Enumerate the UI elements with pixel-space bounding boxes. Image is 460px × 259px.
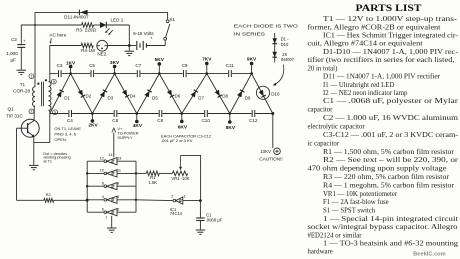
label TIP 31C (6, 114, 23, 119)
parts list line: IC1 - Hex Schmitt Trigger (323, 33, 459, 40)
resistor R1 1.5K (146, 171, 159, 176)
svg-text:1 — TO-3 heatsink and #6-32 mo: 1 — TO-3 heatsink and #6-32 mounting (323, 241, 459, 248)
wire diagonal for D3 (92, 74, 114, 114)
svg-text:74C14: 74C14 (170, 211, 183, 216)
pin 11 label (117, 168, 121, 173)
ground at Q1 emitter (29, 165, 39, 169)
svg-text:6KV: 6KV (178, 124, 188, 130)
VR1 wiper arrow (179, 155, 182, 170)
label 10KV (260, 149, 271, 154)
wire RC node to C1 (199, 201, 201, 218)
svg-text:.0068 µF: .0068 µF (206, 217, 223, 222)
wire battery to S1 (146, 40, 165, 46)
svg-text:R2: R2 (46, 193, 51, 197)
diode D9 (237, 90, 244, 98)
svg-text:5: 5 (117, 206, 119, 211)
wire VR1 wiper loop to right end (181, 155, 201, 173)
svg-text:11: 11 (117, 168, 121, 173)
pin 1 label (184, 193, 186, 198)
label 6-15 Volts (133, 31, 154, 36)
switch S1 SPST (164, 12, 170, 40)
parts list line: #ED2124 or similar (308, 232, 363, 239)
label S1 (169, 17, 175, 22)
svg-text:9KV: 9KV (247, 56, 257, 62)
diode D3 (100, 90, 107, 98)
phasing dot secondary (45, 79, 47, 81)
svg-text:C6: C6 (112, 118, 118, 123)
junction dot common ground node (128, 44, 131, 47)
label CAUTION!! (259, 156, 282, 161)
capacitor C10 .001uF (205, 110, 208, 117)
wire diagonal for D5 (137, 74, 160, 114)
svg-text:AC here: AC here (49, 33, 66, 38)
diode D6 (167, 90, 174, 98)
svg-text:D1-D10 — 1N4007 1-A, 1,000 PIV: D1-D10 — 1N4007 1-A, 1,000 PIV rec- (323, 49, 459, 56)
svg-text:PARTS LIST: PARTS LIST (356, 3, 422, 13)
svg-text:ON T1, LEAVE: ON T1, LEAVE (54, 126, 81, 131)
label IC1 74C14 (170, 207, 183, 216)
parts list line: R1 - 1,500 ohm, 5% carbon (323, 149, 455, 156)
pin 2 label (171, 193, 173, 198)
svg-text:D5: D5 (152, 95, 158, 100)
wire VR1 right end down to oscillator input (200, 173, 202, 200)
label C5 (89, 63, 95, 68)
label C9 (182, 63, 188, 68)
label 1,000 uF (6, 51, 18, 62)
label D1 (64, 95, 70, 100)
wire secondary top to AC tap (49, 46, 50, 82)
svg-text:R2 — See text – will be 220, 3: R2 — See text – will be 220, 390, or (323, 157, 459, 164)
label AC here with arrow (49, 33, 66, 44)
svg-text:.001 µF 2 or 3 KV: .001 µF 2 or 3 KV (161, 138, 193, 143)
parts list line: 470 ohm depending upon sup (308, 166, 447, 173)
inset diode upper (272, 38, 277, 43)
transistor Q1 TIP31C (17, 119, 40, 137)
parts list line: ic capacitor (308, 140, 340, 147)
svg-text:D1: D1 (64, 95, 70, 100)
parts list line: hardware (308, 248, 333, 255)
node 5KV terminal (155, 57, 165, 75)
LED I1 symbol (100, 22, 113, 35)
svg-text:1,000: 1,000 (6, 51, 18, 56)
inverter IC1 gate 5-6 (87, 209, 136, 216)
node 9KV terminal (247, 56, 257, 74)
node 2KV terminal (88, 112, 98, 128)
svg-text:D11-IN4007: D11-IN4007 (64, 14, 89, 19)
svg-text:6: 6 (102, 206, 104, 211)
label D2 (86, 94, 92, 99)
wire diagonal for D6 (159, 74, 182, 114)
parts list line: R3 - 220 ohm, 5% carbon fi (323, 174, 450, 181)
svg-text:D10: D10 (281, 42, 289, 47)
circle highlight around D10 (256, 86, 269, 99)
svg-text:1.5K: 1.5K (148, 180, 157, 185)
svg-text:D6: D6 (175, 94, 181, 99)
parts list line: former, Allegro #COR-2B or (308, 24, 441, 31)
capacitor C1 .0068uF (196, 218, 204, 221)
label T1 (20, 82, 26, 87)
inverter IC1 gate 9-8 (87, 183, 136, 190)
note ON T1 LEAVE PINS 3 4 6 OPEN (54, 126, 81, 142)
diode D4 (122, 90, 129, 98)
transformer T1 primary winding (33, 87, 35, 107)
svg-text:CAUTION!!: CAUTION!! (259, 156, 282, 161)
svg-text:IN4007: IN4007 (281, 57, 295, 62)
node 3KV terminal (110, 60, 120, 75)
wire diagonal for D9 (230, 74, 252, 114)
svg-text:3: 3 (117, 194, 119, 199)
diode D10 (259, 90, 266, 98)
svg-text:C2 — 1.000 uF, 16 WVDC aluminu: C2 — 1.000 uF, 16 WVDC aluminum (323, 115, 459, 122)
svg-text:OPEN.: OPEN. (54, 137, 66, 142)
svg-text:C3-C12 — .001 uF, 2 or 3 KVDC: C3-C12 — .001 uF, 2 or 3 KVDC ceram- (323, 132, 459, 139)
svg-text:4KV: 4KV (133, 123, 143, 129)
svg-text:at T1: at T1 (43, 159, 52, 163)
svg-text:2KV: 2KV (88, 123, 98, 129)
svg-text:IN SERIES: IN SERIES (234, 31, 265, 36)
pin 9 of T1 (53, 110, 58, 115)
svg-text:3KV: 3KV (110, 60, 120, 66)
svg-text:470 ohm depending upon supply: 470 ohm depending upon supply voltage (308, 166, 447, 173)
parts list line: C1 - .0068 uF, polyester o (323, 98, 459, 105)
wire base to R2 (17, 199, 44, 201)
pin 3 label (117, 194, 119, 199)
wire diagonal for D1 (50, 74, 71, 114)
junction dot output bus drive (86, 199, 89, 202)
label C1 .0068 uF (206, 212, 223, 222)
svg-text:EACH DIODE IS TWO: EACH DIODE IS TWO (234, 23, 299, 28)
svg-text:T1: T1 (20, 82, 26, 87)
label C10 (201, 118, 210, 123)
label C11 (226, 63, 235, 68)
svg-text:C3: C3 (57, 63, 63, 68)
svg-text:socket w/integral bypass capac: socket w/integral bypass capacitor. Alle… (308, 224, 459, 231)
svg-text:8: 8 (102, 180, 104, 185)
svg-text:I2 — NE2 neon indicator lamp: I2 — NE2 neon indicator lamp (323, 90, 408, 97)
svg-text:D11 — 1N4007 1-A, 1,000 PIV re: D11 — 1N4007 1-A, 1,000 PIV rectifier (323, 74, 441, 81)
svg-text:R4 — 1 megohm, 5% carbon film: R4 — 1 megohm, 5% carbon film resistor (323, 182, 455, 189)
wire junction to battery (129, 45, 136, 47)
capacitor C8 .001uF (159, 110, 162, 117)
wire inverter output bus (86, 161, 88, 212)
note EACH DIODE IS TWO IN SERIES (234, 23, 299, 36)
pin 14 label (108, 152, 113, 157)
svg-text:D4: D4 (130, 94, 136, 99)
svg-text:R1 — 1,500 ohm, 5% carbon film: R1 — 1,500 ohm, 5% carbon film resistor (323, 149, 455, 156)
svg-text:capacitor: capacitor (308, 107, 334, 114)
junction dot oscillator RC node (199, 199, 202, 202)
heading PARTS LIST (356, 3, 422, 13)
note Dot denotes winding phasing (43, 152, 70, 164)
transformer T1 secondary winding (49, 82, 51, 111)
junction dot input bus row4 (135, 199, 137, 201)
pin 13 label (117, 155, 121, 160)
svg-text:R3 — 220 ohm, 5% carbon film r: R3 — 220 ohm, 5% carbon film resistor (323, 174, 450, 181)
parts list line: capacitor (308, 107, 334, 114)
svg-text:2: 2 (30, 110, 32, 114)
capacitor C12 .001uF (252, 110, 255, 117)
svg-text:NE2: NE2 (97, 52, 106, 57)
pin 5 label (117, 206, 119, 211)
wire R2 to inverter output bus (54, 199, 87, 201)
parts list line: R2 - See text – will be 22 (323, 157, 459, 164)
label battery + (150, 36, 153, 41)
label COR-28 (13, 89, 30, 94)
label D10 (271, 91, 280, 96)
wire R3 to LED I1 (94, 24, 101, 26)
label C2 (11, 37, 17, 42)
label C8 (157, 118, 163, 123)
parts list line: C3-C12 - .001 uF, 2 or 3 K (323, 132, 459, 139)
svg-text:LED 1: LED 1 (111, 18, 124, 23)
ground at IC1 pin 7 (107, 228, 117, 232)
parts list line: T1 - 12V to 1.000V step-up (323, 16, 458, 23)
svg-text:µF: µF (10, 58, 16, 63)
parts list line: I2 - NE2 neon indicator la (323, 90, 408, 97)
svg-text:tifier (two rectifiers in seri: tifier (two rectifiers in series for eac… (308, 57, 455, 64)
pin 12 label (100, 155, 104, 160)
svg-text:F1 — 2A fast-blow fuse: F1 — 2A fast-blow fuse (323, 199, 389, 206)
svg-text:C2: C2 (11, 37, 17, 42)
capacitor C4 .001uF (69, 110, 72, 117)
parts list line: cuit, Allegro #74C14 or eq (308, 41, 423, 48)
svg-text:9: 9 (117, 180, 119, 185)
capacitor C3 .001uF (59, 70, 62, 77)
svg-text:Q1: Q1 (8, 107, 15, 112)
wire secondary-top tap to R4 (50, 45, 81, 47)
potentiometer VR1 10K (172, 171, 187, 176)
wire drive line row4 to oscillator output (136, 199, 172, 202)
svg-text:C1 — .0068 uF, polyester or My: C1 — .0068 uF, polyester or Mylar (323, 98, 459, 105)
battery B1 6-15 volt (137, 41, 147, 50)
pin 10 label (100, 168, 105, 173)
svg-text:2: 2 (171, 193, 173, 198)
svg-text:12: 12 (100, 155, 104, 160)
svg-text:T1 — 12V to 1.000V step-up tra: T1 — 12V to 1.000V step-up trans- (323, 16, 458, 23)
node 4KV terminal (133, 112, 143, 129)
label VR1 -10K (171, 176, 189, 181)
svg-text:1KV: 1KV (66, 60, 76, 66)
parts list line: electrolytic capacitor (308, 124, 366, 131)
svg-text:COR-28: COR-28 (13, 89, 30, 94)
watermark BeekIC.com (413, 251, 446, 257)
svg-text:R3- 220Ω: R3- 220Ω (76, 28, 96, 33)
label D9 (245, 95, 251, 100)
svg-text:14: 14 (108, 152, 113, 157)
resistor R2 (44, 198, 54, 202)
wire output node down (272, 114, 274, 148)
wire diagonal for D4 (115, 74, 137, 114)
parts list line: D1-D10 - 1N4007 1-A, 1,000 (323, 49, 459, 56)
label Q1 (8, 107, 15, 112)
svg-text:+: + (23, 38, 26, 43)
wire left supply bus vertical (34, 12, 36, 87)
capacitor C6 .001uF (114, 110, 117, 117)
parts list line: R4 - 1 megohm, 5% carbon f (323, 182, 455, 189)
label C12 (249, 118, 258, 123)
node 7KV terminal (202, 57, 212, 75)
parts list line: 20 in total) (308, 65, 338, 72)
svg-text:VR1 — 10K potentiometer: VR1 — 10K potentiometer (323, 191, 398, 198)
parts list line: VR1 - 10K potentiometer (323, 191, 398, 198)
svg-text:5KV: 5KV (155, 57, 165, 63)
svg-text:13: 13 (117, 155, 121, 160)
label D4 (130, 94, 136, 99)
junction dot output bus (86, 172, 88, 174)
parts list line: D11 - 1N4007 1-A, 1,000 PI (323, 74, 441, 81)
svg-text:C5: C5 (89, 63, 95, 68)
capacitor C7 .001uF (137, 70, 140, 77)
inset wire two series diodes (274, 33, 276, 63)
svg-text:D7: D7 (198, 95, 204, 100)
label R3- 220 ohm (76, 28, 96, 33)
parts list line: tifier (two rectifiers in (308, 57, 455, 64)
svg-text:BeekIC.com: BeekIC.com (413, 251, 446, 257)
capacitor C9 .001uF (184, 70, 187, 77)
svg-text:8KV: 8KV (226, 125, 236, 131)
svg-text:1: 1 (30, 75, 32, 79)
pin 8 of T1 (51, 79, 56, 84)
label C4 (67, 118, 73, 123)
svg-text:D3: D3 (108, 95, 114, 100)
parts list line: S1 - SPST switch (323, 208, 376, 215)
junction dot output node (271, 112, 274, 115)
wire input bus to R1 (136, 172, 146, 174)
svg-text:4: 4 (102, 194, 105, 199)
parts list line: I1 - Ultrabright red LED (323, 82, 394, 89)
pin 1 of T1 (29, 74, 34, 79)
label LED 1 (111, 18, 124, 23)
svg-text:D9: D9 (245, 95, 251, 100)
svg-text:SUPPLY: SUPPLY (117, 135, 132, 140)
label C3 (57, 63, 63, 68)
diode D1 (57, 90, 64, 98)
ground below C2 (17, 70, 27, 74)
label D11-IN4007 (64, 14, 89, 19)
inverter IC1 gate 3-4 (87, 196, 136, 203)
wire C2 to ground (20, 47, 22, 69)
inverter IC1 gate 11-10 (87, 170, 136, 177)
wire Q1 base down (16, 128, 18, 200)
pin 4 label (102, 194, 105, 199)
note EACH CAPACITOR C3-C12 (161, 133, 212, 143)
phasing dot primary (37, 83, 39, 85)
junction dot output bus (86, 199, 88, 201)
label R2 (46, 193, 51, 197)
svg-text:D2: D2 (86, 94, 92, 99)
svg-text:TIP 31C: TIP 31C (6, 114, 23, 119)
ground at battery junction (125, 51, 135, 55)
wire Q1 collector to primary bottom (33, 106, 36, 120)
svg-text:I1 — Ultrabright red LED: I1 — Ultrabright red LED (323, 82, 394, 89)
svg-text:7KV: 7KV (202, 57, 212, 63)
svg-text:1 — Special 14-pin integrated: 1 — Special 14-pin integrated circuit (323, 216, 458, 223)
wire multiplier bottom rail (50, 113, 273, 115)
svg-text:#ED2124 or similar: #ED2124 or similar (308, 232, 363, 239)
wire diagonal for D10 (252, 74, 273, 114)
transformer T1 core (42, 82, 44, 107)
wire multiplier return to emitter ground (34, 114, 50, 143)
wire junction to ground (128, 46, 130, 51)
diode D7 (191, 90, 198, 98)
capacitor C5 .001uF (91, 70, 94, 77)
label D5 (152, 95, 158, 100)
junction dot left bus / LED wire (34, 24, 36, 26)
svg-text:electrolytic capacitor: electrolytic capacitor (308, 124, 366, 131)
wire LED to ground corner (106, 25, 129, 46)
parts list line: 1 - Special 14-pin integra (323, 216, 458, 223)
inverter IC1 oscillator gate 1-2 (172, 197, 200, 204)
wire wire2 down to capacitor C2 (20, 25, 22, 44)
svg-text:8: 8 (53, 80, 55, 84)
label D7 (198, 95, 204, 100)
svg-text:S1 — SPST switch: S1 — SPST switch (323, 208, 376, 215)
svg-text:C12: C12 (249, 118, 258, 123)
svg-text:C11: C11 (226, 63, 235, 68)
diode D5 (144, 90, 151, 98)
arrow from inset to D10 (273, 65, 284, 86)
svg-text:R4-1M: R4-1M (81, 48, 95, 53)
node 6KV terminal (178, 112, 188, 130)
label R4-1M (81, 48, 95, 53)
capacitor C2 electrolytic (17, 38, 26, 47)
svg-text:IC1 — Hex Schmitt Trigger inte: IC1 — Hex Schmitt Trigger integrated cir… (323, 33, 459, 40)
wire diagonal for D2 (71, 74, 93, 114)
pin 9 label (117, 180, 119, 185)
label C7 (135, 63, 141, 68)
svg-text:cuit, Allegro #74C14 or equiva: cuit, Allegro #74C14 or equivalent (308, 41, 423, 48)
resistor R3 220 ohm (82, 23, 94, 28)
diode D11 1N4007 in top supply wire (79, 10, 87, 16)
inset diode lower (272, 52, 277, 57)
label D6 (175, 94, 181, 99)
diode D8 (215, 90, 222, 98)
wire diagonal for D7 (182, 74, 207, 114)
svg-text:C8: C8 (157, 118, 163, 123)
label R1 1.5K (148, 175, 157, 185)
wire from C2 top to R3 (21, 24, 81, 26)
label NE2 (97, 52, 106, 57)
svg-text:10KV: 10KV (260, 149, 271, 154)
junction dot output bus (86, 185, 88, 187)
parts list line: 1 - TO-3 heatsink and #6-3 (323, 241, 459, 248)
wire diagonal for D8 (207, 74, 230, 114)
node 8KV terminal (226, 112, 236, 131)
node 1KV terminal (66, 60, 76, 75)
wire top supply rail from left bus to switch S1 (35, 11, 168, 13)
junction dot input bus row2 (135, 172, 137, 174)
wire inverter input bus (135, 161, 137, 212)
label D3 (108, 95, 114, 100)
parts list line: F1 - 2A fast-blow fuse (323, 199, 389, 206)
svg-text:7: 7 (105, 215, 107, 220)
svg-text:ic capacitor: ic capacitor (308, 140, 340, 147)
svg-text:1: 1 (184, 193, 186, 198)
svg-text:hardware: hardware (308, 248, 333, 255)
label V+ TO POWER SUPPLY with arrow (112, 126, 139, 157)
neon lamp I2 NE2 (97, 40, 108, 51)
svg-text:20 in total): 20 in total) (308, 65, 338, 72)
label 2X IN4007 (281, 52, 295, 62)
inverter IC1 gate 13-12 (87, 158, 136, 165)
pin 6 label (102, 206, 104, 211)
svg-text:PINS 3, 4, 6: PINS 3, 4, 6 (54, 132, 76, 137)
svg-text:C9: C9 (182, 63, 188, 68)
wire multiplier top rail (50, 73, 252, 75)
wire secondary bottom to rail start (49, 110, 50, 113)
wire NE2 to ground junction (108, 45, 130, 47)
svg-text:D10: D10 (271, 91, 280, 96)
